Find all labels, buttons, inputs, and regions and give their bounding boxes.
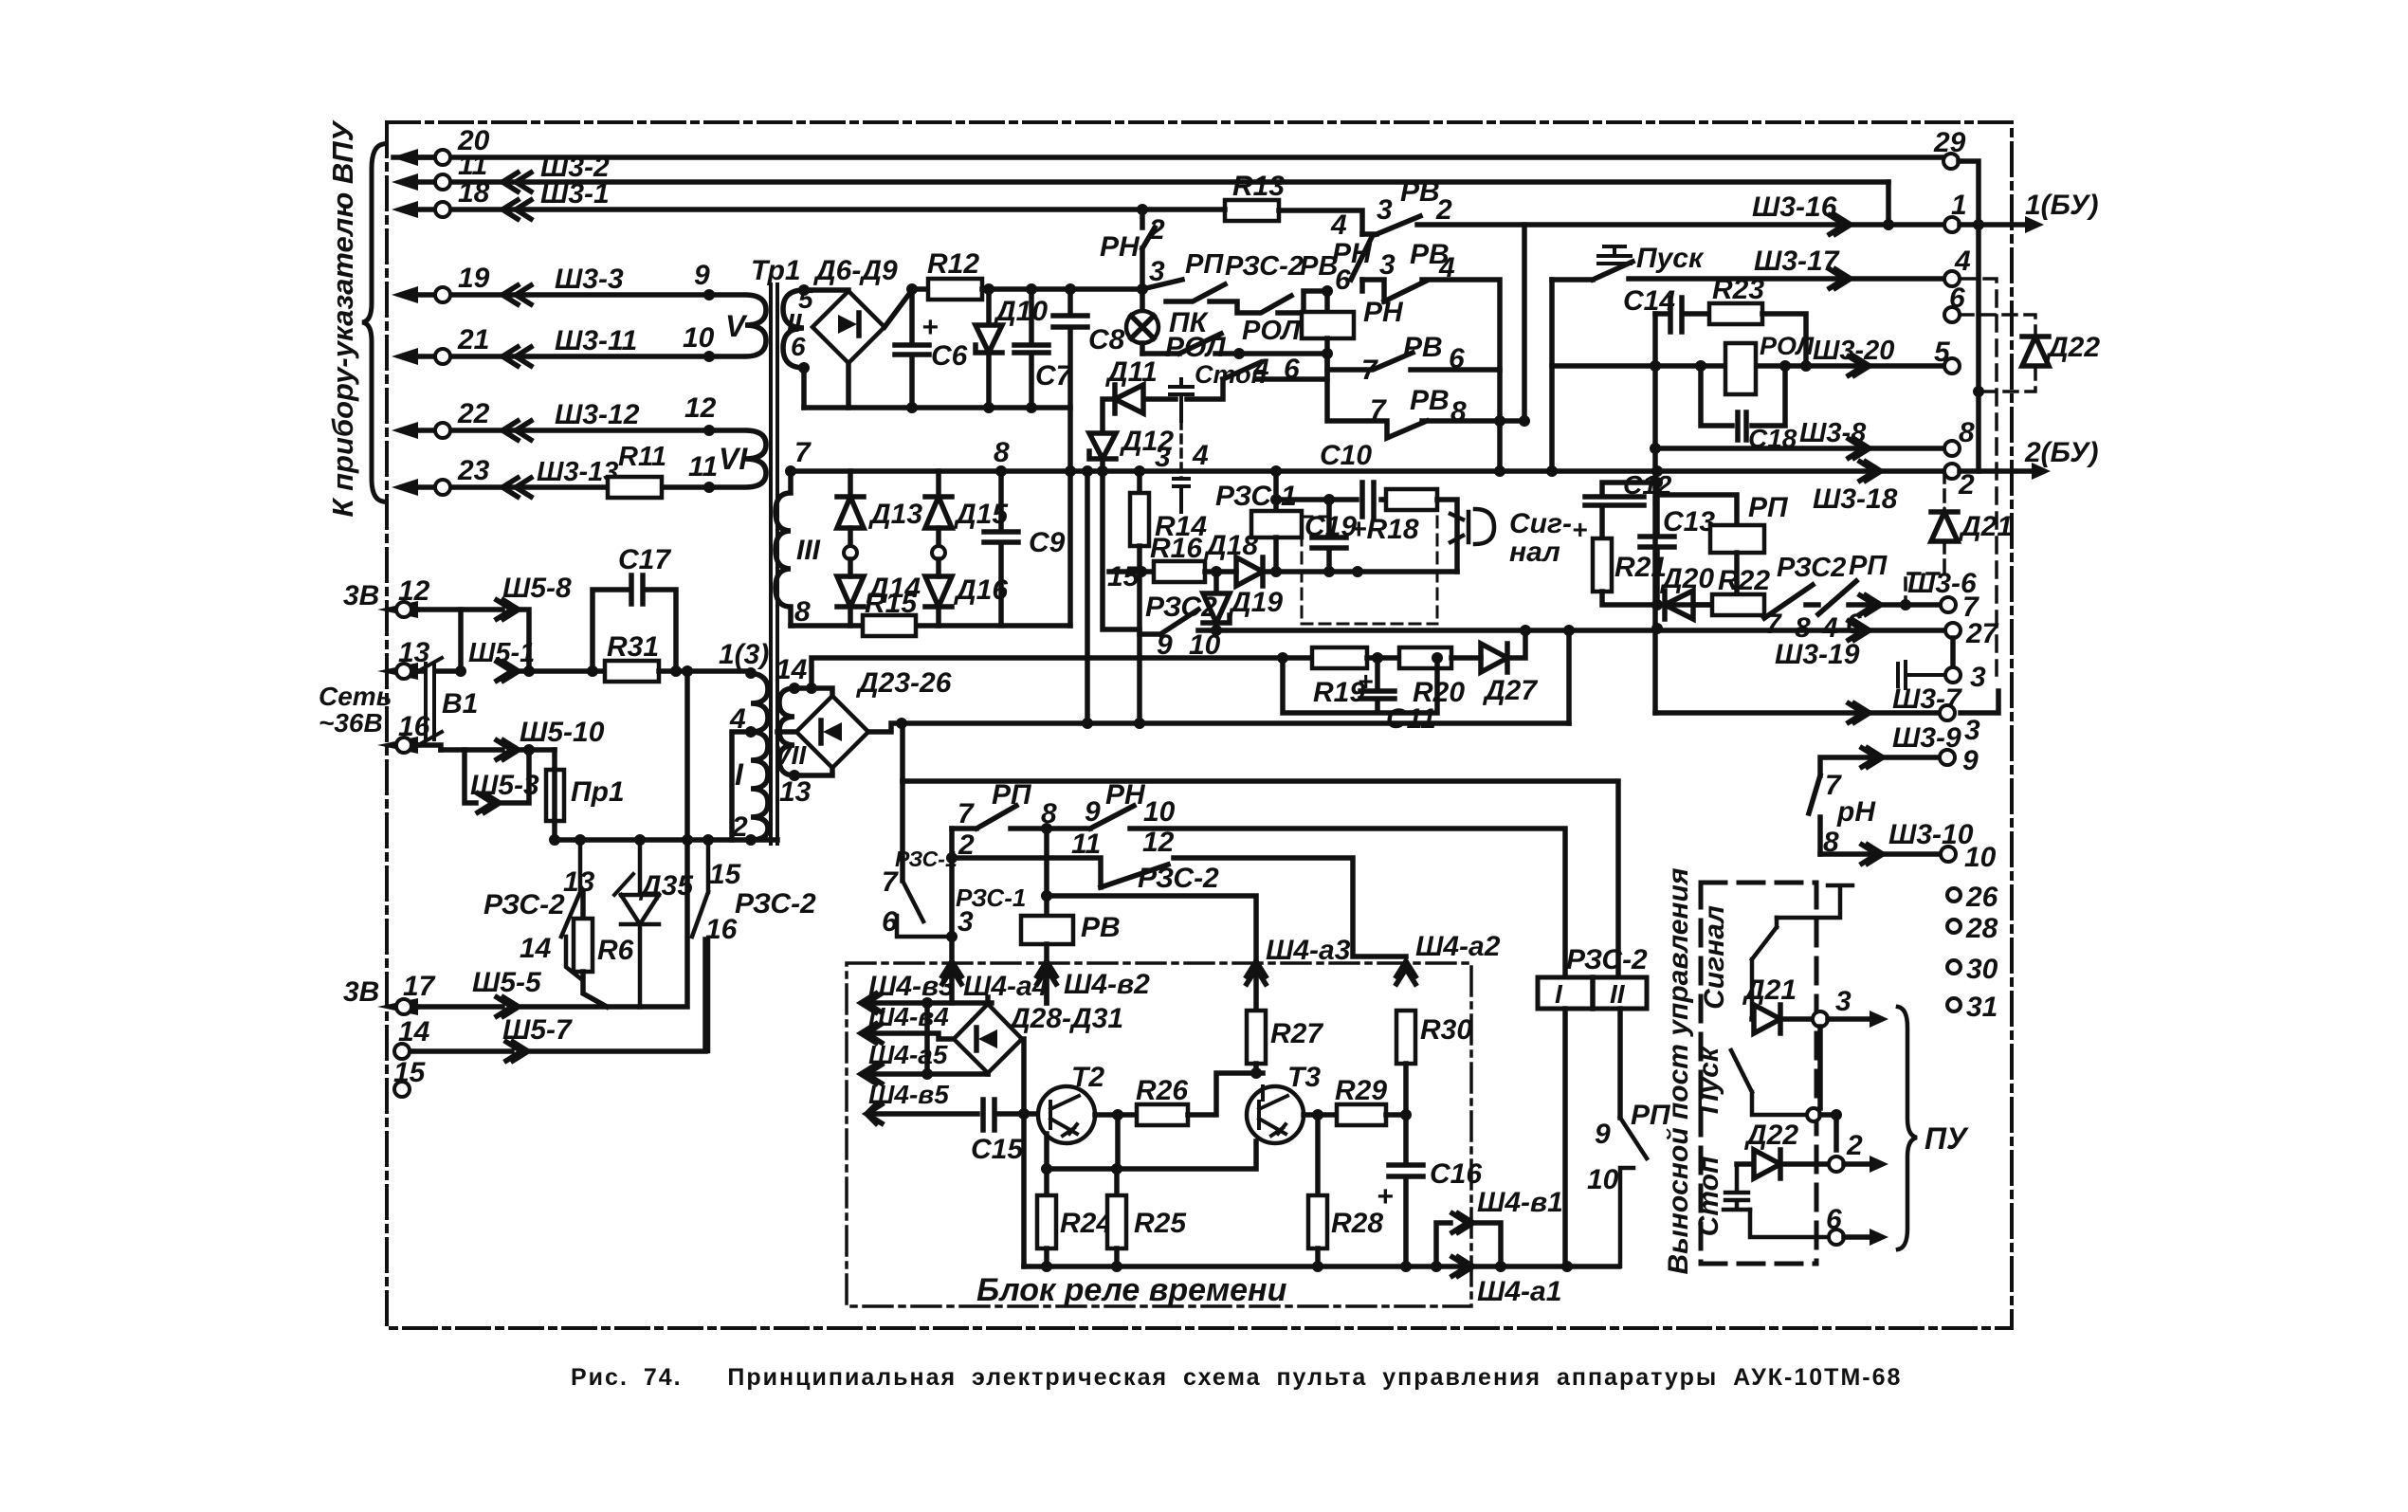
- node winding II bottom: [798, 362, 810, 373]
- diode Д18: [1236, 557, 1457, 586]
- svg-text:Ш3-10: Ш3-10: [1888, 819, 1974, 850]
- svg-text:Ш4-в2: Ш4-в2: [1064, 969, 1150, 1000]
- arrow line 18: [392, 201, 418, 218]
- net label Ш3-3: [555, 264, 624, 295]
- triac Д35: [621, 840, 659, 1007]
- pin circle 6: [1944, 307, 1960, 322]
- wire bridge bottom to rail: [846, 363, 851, 408]
- wire Д21 junction down: [1817, 1027, 1823, 1108]
- resistor R12: [928, 279, 982, 300]
- bell Сигнал: [1450, 509, 1494, 544]
- pushbutton Стоп lower 3-4: [1179, 421, 1183, 479]
- label I: [735, 757, 744, 792]
- svg-text:Д10: Д10: [993, 296, 1048, 327]
- svg-text:Ш5-8: Ш5-8: [502, 573, 572, 604]
- arrow 3 ПУ: [1828, 1016, 1870, 1022]
- node 9: [703, 289, 715, 301]
- wires bridge2 AC: [794, 688, 832, 775]
- wire y874 РП РН row: [952, 806, 1565, 977]
- svg-text:17: 17: [403, 971, 436, 1002]
- node bus x1748: [1651, 465, 1663, 477]
- svg-text:В1: В1: [442, 688, 478, 720]
- svg-text:Ш5-7: Ш5-7: [502, 1014, 573, 1046]
- box right edge: [1067, 471, 1073, 626]
- svg-text:РЗС-2: РЗС-2: [483, 889, 565, 920]
- svg-text:Д22: Д22: [1743, 1120, 1798, 1151]
- svg-text:31: 31: [1966, 992, 1998, 1023]
- svg-text:I: I: [735, 757, 744, 792]
- vertical wire x1608: [1522, 225, 1527, 421]
- svg-text:7: 7: [794, 437, 812, 468]
- svg-text:РВ: РВ: [1400, 176, 1440, 208]
- pin circle 28: [1947, 920, 1961, 933]
- wire R19 to R20: [1367, 655, 1399, 661]
- node line C x1147: [1082, 718, 1093, 729]
- node 12: [703, 425, 715, 436]
- capacitor C8: [1053, 289, 1087, 471]
- svg-text:РОЛ: РОЛ: [1242, 316, 1302, 346]
- riser from line C to БРВ rail: [900, 723, 905, 781]
- svg-text:16: 16: [705, 914, 738, 945]
- svg-text:14: 14: [775, 654, 808, 685]
- svg-text:С10: С10: [1320, 440, 1372, 471]
- svg-text:РЗС-2: РЗС-2: [1225, 251, 1304, 282]
- node C7 top: [1026, 283, 1037, 295]
- contact РН 2-3: [1142, 209, 1155, 289]
- resistor R29: [1337, 1104, 1386, 1125]
- wire line 11 (Ш3-2): [417, 179, 1888, 185]
- node 1(3): [745, 667, 757, 679]
- РВ coil column: [1044, 829, 1049, 916]
- label 6: [791, 332, 806, 361]
- svg-text:12: 12: [398, 575, 430, 607]
- svg-text:3В: 3В: [343, 976, 379, 1008]
- svg-text:Ш4-а3: Ш4-а3: [1266, 935, 1351, 966]
- svg-text:нал: нал: [1509, 537, 1560, 568]
- wire top y824: [903, 781, 1618, 977]
- arrow line 23: [392, 479, 418, 496]
- pin circle 20: [435, 150, 450, 165]
- capacitor C19: [1312, 500, 1346, 572]
- chevron Ш3-2: [502, 173, 531, 191]
- contact РОЛ on wire y373: [1142, 334, 1327, 354]
- contact РП 9-10: [1620, 1118, 1647, 1266]
- svg-text:Ш3-1: Ш3-1: [540, 178, 610, 209]
- wire R23 to corner: [1762, 314, 1806, 366]
- wire emitter feedback y1233: [1047, 1141, 1256, 1169]
- svg-text:Сеть: Сеть: [319, 682, 392, 711]
- node C17 left: [587, 665, 598, 677]
- svg-text:РВ: РВ: [1081, 912, 1121, 943]
- svg-text:РЗС-2: РЗС-2: [735, 888, 816, 920]
- arrow line 19: [392, 286, 418, 303]
- resistor R20: [1399, 647, 1451, 668]
- svg-text:R31: R31: [607, 631, 659, 663]
- wire line 13 (Сеть): [417, 668, 461, 674]
- chevron Ш3-19: [1849, 621, 1870, 640]
- svg-text:10: 10: [683, 322, 715, 354]
- svg-text:29: 29: [1933, 127, 1966, 158]
- svg-text:4: 4: [1330, 209, 1347, 241]
- jumper Ш5-3: [465, 750, 529, 812]
- resistor R14 column: [1137, 471, 1142, 493]
- svg-text:15: 15: [393, 1057, 427, 1088]
- bridge rectifier Д23-26: [796, 696, 868, 768]
- resistor R15: [863, 615, 916, 636]
- svg-text:14: 14: [398, 1016, 430, 1047]
- pin circle 29: [1943, 154, 1959, 169]
- svg-text:С8: С8: [1088, 324, 1125, 355]
- contact chain РП РЗС-2 РВ labels: [1185, 249, 1224, 280]
- resistor R11: [608, 477, 662, 498]
- svg-text:3: 3: [1377, 194, 1393, 226]
- line Ш3-20 y386: [1552, 363, 1945, 369]
- wire РЗС-1 branch y527: [1276, 497, 1384, 502]
- diode Д11: [1115, 385, 1176, 413]
- node C8 top: [1065, 283, 1076, 295]
- svg-text:РЗС-2: РЗС-2: [1566, 944, 1648, 975]
- chevron Ш4-а1 on rail: [1452, 1257, 1473, 1276]
- line Ш3-19: [1140, 610, 1945, 634]
- svg-text:С6: С6: [931, 340, 968, 372]
- svg-text:2: 2: [1846, 1130, 1863, 1161]
- jumper Ш5-1 chevron: [497, 662, 519, 681]
- contact chain wires: [1142, 280, 1327, 313]
- lamp ПК: [1140, 289, 1145, 311]
- svg-text:Стоп: Стоп: [1693, 1157, 1724, 1237]
- svg-text:РЗС-1: РЗС-1: [1215, 481, 1297, 512]
- diode Д21 main: [1943, 471, 1946, 512]
- svg-text:+: +: [1572, 515, 1587, 544]
- wire node to circle 7: [1906, 602, 1941, 608]
- svg-text:1: 1: [1951, 190, 1967, 221]
- svg-text:Ш3-16: Ш3-16: [1752, 191, 1837, 223]
- pin circle 21: [435, 349, 450, 364]
- wire Ш3-10: [1820, 851, 1941, 857]
- pin circle 11: [435, 174, 450, 190]
- svg-text:Ш3-20: Ш3-20: [1813, 336, 1894, 366]
- chevron Ш3-1: [502, 200, 531, 219]
- contact РВ 7-8: [1327, 370, 1524, 438]
- svg-text:4: 4: [1954, 246, 1971, 277]
- node rail C6: [906, 402, 918, 413]
- wire Ш4-в3 row: [868, 1000, 992, 1006]
- node 11: [703, 482, 715, 493]
- arrow Ш4-а3: [1247, 961, 1266, 984]
- svg-text:Сиг-: Сиг-: [1509, 508, 1572, 539]
- svg-text:Д28-Д31: Д28-Д31: [1007, 1003, 1123, 1034]
- svg-text:3В: 3В: [343, 580, 379, 611]
- contact РЗС-1 7-6: [897, 881, 952, 937]
- svg-text:6: 6: [1284, 354, 1300, 385]
- riser R14 column to line C: [1137, 572, 1142, 723]
- jumper Ш5-8: [461, 600, 529, 671]
- node Ш5-3: [523, 744, 535, 756]
- label 10: [683, 322, 715, 354]
- pin circle 2: [1944, 464, 1960, 479]
- arrow line 21: [392, 348, 418, 365]
- contact Сигнал: [1752, 918, 1777, 1019]
- resistor R16: [1154, 561, 1205, 582]
- Д12 column below bus: [1103, 471, 1140, 629]
- РЗС-2 slider box I II: [1538, 977, 1647, 1009]
- pin circle 22: [435, 423, 450, 438]
- pin circle 5: [1944, 358, 1960, 373]
- svg-text:R27: R27: [1270, 1018, 1323, 1049]
- node 10: [703, 351, 715, 362]
- diode Д20: [1665, 591, 1712, 619]
- wire line 12 (3В): [417, 610, 461, 671]
- pin circle Ш3-7: [1940, 705, 1955, 720]
- pin circle 8: [1944, 441, 1960, 456]
- mid pin circle Д15 Д16: [936, 528, 941, 546]
- pin circle 10: [1941, 847, 1956, 862]
- bottom rail: [1024, 1264, 1618, 1269]
- label V: [725, 309, 748, 343]
- capacitor C6 electrolytic: [895, 289, 929, 408]
- svg-text:Д27: Д27: [1482, 675, 1538, 706]
- capacitor C12: [1585, 483, 1657, 538]
- chevron Д20 row: [1860, 595, 1881, 614]
- svg-text:РЗС-1: РЗС-1: [956, 884, 1026, 912]
- stub from node 4: [732, 732, 751, 840]
- wire after R31: [659, 668, 751, 674]
- node line18 РН contact: [1137, 204, 1148, 215]
- svg-text:6: 6: [1826, 1204, 1842, 1235]
- svg-text:3: 3: [1379, 249, 1396, 281]
- svg-text:+: +: [1377, 1181, 1394, 1212]
- wire y945 to Ш4-а3: [1047, 896, 1256, 1011]
- resistor R13 in line18: [1225, 200, 1279, 221]
- node bus Д12: [1097, 465, 1108, 477]
- svg-text:~36В: ~36В: [319, 708, 383, 738]
- svg-text:ПУ: ПУ: [1925, 1121, 1969, 1156]
- svg-text:9: 9: [1595, 1119, 1611, 1150]
- svg-text:14: 14: [520, 933, 552, 964]
- pin circle 19: [435, 287, 450, 302]
- svg-text:8: 8: [1450, 396, 1467, 428]
- wire line 20: [417, 155, 1943, 160]
- svg-text:II: II: [1610, 979, 1626, 1009]
- label VI: [719, 442, 748, 476]
- svg-text:Д20: Д20: [1659, 563, 1714, 594]
- resistor R28: [1315, 1115, 1321, 1195]
- svg-text:Ш5-1: Ш5-1: [468, 638, 535, 668]
- svg-text:3: 3: [1970, 662, 1986, 693]
- resistor R6: [580, 892, 586, 919]
- svg-text:28: 28: [1965, 913, 1998, 944]
- label 19: [458, 263, 490, 294]
- pin circle 3 (Ш3-7 group): [1945, 667, 1961, 683]
- diode Д10 zener: [976, 289, 1002, 408]
- svg-text:Ш5-10: Ш5-10: [520, 717, 605, 748]
- diode Д22 ПУ: [1737, 1150, 1829, 1178]
- svg-text:8: 8: [1959, 417, 1975, 448]
- vertical x1746: [1652, 314, 1658, 448]
- label Д23-26: [855, 667, 952, 699]
- svg-text:РОЛ: РОЛ: [1760, 332, 1815, 360]
- svg-text:4: 4: [1438, 252, 1455, 283]
- wire to R31: [518, 668, 605, 674]
- svg-text:РВ: РВ: [1300, 251, 1338, 282]
- svg-text:10: 10: [1143, 796, 1176, 828]
- resistor R21: [1593, 538, 1612, 592]
- brace for left connector group: [362, 144, 383, 501]
- connector half symbol: [1898, 662, 1945, 688]
- label 9: [694, 260, 710, 291]
- left vertical x952: [900, 781, 905, 881]
- resistor R25: [1114, 1169, 1120, 1195]
- svg-text:15: 15: [1107, 561, 1140, 592]
- svg-text:РН: РН: [1100, 231, 1140, 263]
- chevron Ш3-18 on bus: [1860, 462, 1881, 481]
- svg-text:23: 23: [457, 455, 490, 486]
- svg-text:РН: РН: [1105, 779, 1146, 811]
- svg-text:13: 13: [779, 776, 812, 808]
- label 4: [745, 726, 757, 738]
- wire line 18 (Ш3-1): [417, 207, 1142, 212]
- label 20: [457, 125, 490, 156]
- svg-text:2: 2: [1958, 469, 1975, 501]
- frame border dash-dot: [387, 122, 2012, 1328]
- bridge rectifier Д6-Д9: [812, 291, 885, 363]
- svg-text:Ш3-12: Ш3-12: [555, 399, 640, 430]
- svg-text:РЗС2: РЗС2: [1777, 553, 1846, 583]
- svg-text:R6: R6: [597, 935, 634, 966]
- label 23: [457, 455, 490, 486]
- arrow Ш4-а4: [942, 961, 961, 984]
- svg-text:9: 9: [1085, 796, 1101, 828]
- vertical label Выносной пост управления: [1663, 867, 1694, 1274]
- diode Д19 zener: [1203, 572, 1230, 630]
- wire line 21 (Ш3-11): [417, 354, 709, 359]
- svg-text:Пуск: Пуск: [1693, 1046, 1724, 1114]
- svg-text:9: 9: [1157, 629, 1173, 661]
- vertical x1746 lower: [1652, 448, 1658, 713]
- svg-text:Д11: Д11: [1104, 356, 1158, 388]
- svg-text:2: 2: [1148, 214, 1165, 246]
- pushbutton Стоп: [1170, 379, 1193, 421]
- svg-text:19: 19: [458, 263, 490, 294]
- svg-text:22: 22: [457, 398, 490, 429]
- capacitor C14: [1655, 298, 1709, 332]
- riser line C to Ш3-19: [1566, 630, 1572, 723]
- label III: [796, 535, 821, 566]
- svg-text:7: 7: [1765, 609, 1782, 640]
- wire y905 РЗС-2 row: [952, 858, 1406, 956]
- wire y886 row 2: [555, 837, 777, 843]
- relay coil РП: [1657, 495, 1737, 525]
- label 8 bottom: [794, 596, 811, 628]
- contact РВ 3-2 to Ш3-16: [1362, 216, 1944, 234]
- pin circle 18: [435, 202, 450, 217]
- brace ПУ: [1898, 1007, 1917, 1249]
- svg-text:6: 6: [1449, 343, 1465, 374]
- winding I: [751, 673, 768, 840]
- wire Стоп to 6: [1750, 1210, 1829, 1237]
- node line C x951: [896, 718, 907, 729]
- svg-text:III: III: [796, 535, 821, 566]
- capacitor C17 loop: [593, 575, 676, 671]
- wire Ш3-7: [1655, 691, 1998, 713]
- net label Ш3-12: [555, 399, 640, 430]
- svg-text:26: 26: [1965, 882, 1998, 913]
- svg-text:РП: РП: [1849, 551, 1888, 581]
- svg-text:R30: R30: [1420, 1014, 1472, 1046]
- chevron Ш3-20: [1849, 356, 1870, 375]
- svg-text:R12: R12: [927, 248, 979, 280]
- wire line C from bridge右: [868, 723, 1569, 732]
- winding III box left edge: [775, 471, 791, 626]
- mid pin circle Д13 Д14: [848, 528, 853, 546]
- resistor R19: [1312, 647, 1367, 668]
- svg-text:8: 8: [794, 596, 811, 628]
- svg-text:Блок реле времени: Блок реле времени: [976, 1272, 1287, 1308]
- svg-text:27: 27: [1965, 618, 1999, 649]
- pin circle 31: [1947, 998, 1961, 1011]
- node winding II top: [798, 284, 810, 296]
- arrow 2(БУ): [1960, 468, 2032, 474]
- pin circle 2 ПУ: [1829, 1157, 1844, 1172]
- diode Д22 main: [2022, 337, 2049, 366]
- node после Ш5-1: [523, 665, 535, 677]
- БРВ box dash-dot: [847, 963, 1471, 1306]
- svg-text:Пр1: Пр1: [571, 776, 625, 808]
- svg-text:1(БУ): 1(БУ): [2025, 190, 2098, 221]
- wire y603 R16 Д18: [1109, 569, 1154, 574]
- ground symbol: [1777, 885, 1852, 918]
- node line13: [455, 665, 466, 677]
- arrow line 22: [392, 422, 418, 439]
- rail negative bus: [804, 405, 1070, 410]
- svg-text:6: 6: [1949, 282, 1965, 314]
- button Стоп ПУ: [1724, 1164, 1750, 1210]
- wire line B from node14: [812, 658, 1312, 688]
- node at РН coil top: [1322, 285, 1333, 297]
- node before circle 7: [1900, 599, 1911, 610]
- svg-text:+: +: [921, 312, 939, 343]
- dashed link circle4 to vertical: [1960, 279, 1997, 675]
- svg-text:Д14: Д14: [866, 573, 921, 604]
- capacitor C7: [1014, 289, 1049, 408]
- svg-text:R23: R23: [1712, 274, 1764, 305]
- svg-text:13: 13: [563, 866, 595, 898]
- bridge verticals: [985, 997, 991, 1074]
- label Сеть 36В: [319, 682, 392, 711]
- vertical wire Пуск x1637: [1549, 280, 1555, 471]
- label 22: [457, 398, 490, 429]
- winding V of Tp1: [709, 295, 766, 356]
- wire bridge2 left vertex down: [777, 729, 796, 735]
- resistor R31: [605, 661, 659, 682]
- wire line 17 Ш5-5: [417, 997, 640, 1016]
- svg-text:рН: рН: [1836, 796, 1876, 828]
- pin circle 27: [1945, 623, 1961, 638]
- resistor R18: [1384, 497, 1386, 502]
- svg-text:12: 12: [1142, 827, 1175, 858]
- pin circle 9: [1940, 750, 1955, 765]
- svg-text:R24: R24: [1060, 1208, 1112, 1239]
- svg-text:РП: РП: [1185, 249, 1224, 280]
- node bus C8: [1065, 465, 1076, 477]
- svg-text:Выносной пост управления: Выносной пост управления: [1663, 867, 1694, 1274]
- svg-text:Ш4-в3: Ш4-в3: [868, 971, 955, 1002]
- label II: [787, 308, 803, 337]
- svg-text:R13: R13: [1232, 171, 1285, 202]
- node bus РЗС-1: [1270, 465, 1282, 477]
- contact РЗС-2 13-14: [561, 840, 580, 978]
- svg-text:3: 3: [1964, 715, 1980, 746]
